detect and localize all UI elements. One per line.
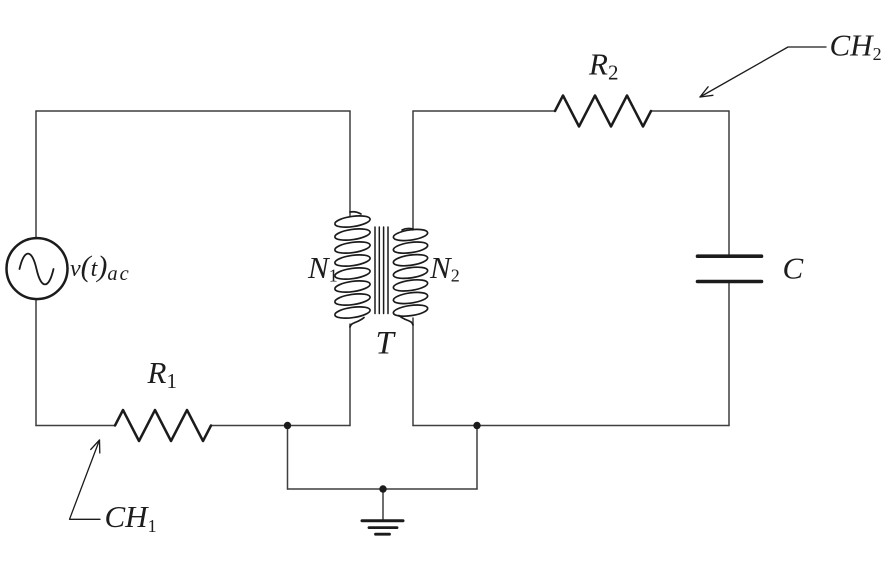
- wire top-right horizontal (R2 to right corner): [651, 110, 729, 112]
- wire primary top lead: [349, 111, 351, 216]
- svg-text:R2: R2: [588, 47, 618, 85]
- svg-text:N2: N2: [429, 250, 460, 286]
- wire top-right horizontal (secondary to R2): [413, 110, 555, 112]
- svg-text:T: T: [376, 326, 397, 362]
- wire left vertical (top wire to source): [35, 111, 37, 238]
- svg-text:N1: N1: [307, 250, 338, 286]
- wire right vertical (capacitor to bottom wire): [728, 283, 730, 426]
- wire ground horizontal: [288, 488, 478, 490]
- svg-text:C: C: [783, 251, 804, 286]
- wire top-left horizontal: [36, 110, 350, 112]
- wire left vertical (source to bottom wire): [35, 299, 37, 426]
- svg-text:CH2: CH2: [830, 28, 882, 65]
- wire secondary bottom lead: [412, 318, 414, 426]
- ground symbol: [362, 519, 403, 522]
- AC source sine wave: [20, 254, 54, 285]
- transformer T primary coil N1: [334, 212, 371, 327]
- transformer T secondary coil N2: [393, 228, 429, 325]
- arrow CH2 pointer: [700, 47, 826, 97]
- resistor R1: [115, 410, 211, 441]
- AC source V1 circle: [7, 238, 68, 299]
- svg-text:CH1: CH1: [105, 499, 157, 536]
- wire primary bottom lead: [349, 324, 351, 426]
- resistor R2: [555, 96, 651, 127]
- node junction dot right: [473, 422, 480, 429]
- arrow CH1 pointer: [70, 440, 101, 519]
- node junction dot ground: [379, 485, 386, 492]
- wire secondary top lead: [412, 111, 414, 230]
- transformer T core: [375, 227, 388, 314]
- wire bottom-right horizontal (secondary to right side): [413, 425, 729, 427]
- wire ground right vertical: [476, 426, 478, 490]
- capacitor C plates: [698, 256, 762, 281]
- wire bottom horizontal (R1 to primary): [211, 425, 350, 427]
- wire right vertical (corner to capacitor): [728, 111, 730, 255]
- svg-text:R1: R1: [147, 355, 177, 393]
- wire ground stem: [382, 489, 384, 521]
- node junction dot left: [284, 422, 291, 429]
- wire ground left vertical: [287, 426, 289, 490]
- wire bottom-left horizontal: [36, 425, 115, 427]
- svg-text:v(t)ac: v(t)ac: [70, 250, 131, 285]
